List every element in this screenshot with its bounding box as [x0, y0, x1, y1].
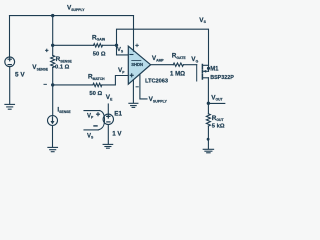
svg-text:E1: E1 — [114, 110, 122, 117]
node marker below ROUT — [207, 138, 210, 141]
E1 control minus sign — [94, 125, 97, 127]
svg-text:RMATCH: RMATCH — [88, 74, 105, 81]
svg-text:+: + — [45, 48, 49, 55]
E1 control capsule right cap — [98, 111, 104, 130]
opamp noninverting input plus sign — [130, 74, 133, 77]
ground under opamp — [129, 103, 138, 107]
opamp SHDN pin wire to VSUPPLY — [140, 74, 147, 99]
wire M1 drain down to VOUT node — [207, 78, 209, 114]
svg-text:VP: VP — [87, 113, 94, 119]
svg-text:VS: VS — [117, 47, 124, 53]
wire RGAIN from RSENSE top tap to VS node — [53, 44, 94, 46]
wire VOUT stub to the right — [208, 102, 224, 104]
svg-text:VP: VP — [118, 67, 125, 74]
resistor RGAIN 50 ohm — [94, 44, 103, 47]
wire VS node up and over to M1 source — [117, 29, 209, 65]
wire RMATCH from sense bottom node — [53, 84, 93, 86]
opamp V- wire to ground — [132, 80, 134, 103]
wire M1 source bus — [208, 65, 210, 71]
svg-text:ISENSE: ISENSE — [57, 107, 71, 114]
vcvs E1 1V output circle — [103, 104, 113, 144]
opamp inverting input minus sign — [130, 54, 133, 56]
svg-text:VSUPPLY: VSUPPLY — [149, 96, 168, 103]
svg-text:VOUT: VOUT — [211, 94, 223, 101]
voltage source V1 5V — [5, 57, 15, 67]
label SHDN with overline — [131, 61, 143, 67]
svg-text:–: – — [136, 84, 140, 90]
wire ISENSE to ground — [52, 126, 54, 148]
wire battery to ground — [9, 67, 11, 104]
ground under ROUT — [203, 149, 213, 153]
svg-text:RGAIN: RGAIN — [92, 34, 106, 41]
op-amp U1 LTC2063 triangle — [128, 46, 150, 84]
ground under E1 — [103, 144, 113, 148]
junction node on rail at RSENSE — [51, 14, 54, 17]
E1 control capsule top lead VP — [84, 110, 100, 112]
resistor ROUT 5k — [206, 114, 210, 126]
junction node VS — [115, 44, 118, 47]
resistor RGATE 1 Mohm — [173, 63, 183, 66]
svg-text:M1: M1 — [210, 67, 219, 73]
svg-text:VSUPPLY: VSUPPLY — [67, 4, 85, 11]
wire RMATCH to opamp noninverting input — [102, 76, 128, 85]
svg-text:SHDN: SHDN — [131, 62, 143, 67]
svg-text:RSENSE: RSENSE — [56, 56, 73, 63]
svg-text:1 V: 1 V — [112, 131, 122, 138]
svg-text:+: + — [135, 42, 139, 49]
wire RSENSE bottom to node — [52, 68, 54, 116]
current source ISENSE — [48, 116, 58, 126]
svg-text:RGATE: RGATE — [172, 53, 187, 60]
svg-text:LTC2063: LTC2063 — [145, 79, 168, 85]
wire VS node down to opamp inverting input — [117, 45, 129, 55]
svg-text:VAMP: VAMP — [152, 55, 165, 62]
junction node sense bottom — [51, 83, 54, 86]
svg-text:VS: VS — [87, 133, 94, 139]
svg-text:ROUT: ROUT — [212, 115, 225, 122]
E1 control capsule bottom lead VSbar — [84, 129, 98, 131]
svg-text:0.1 Ω: 0.1 Ω — [55, 65, 70, 71]
junction node RGAIN tap — [51, 44, 54, 47]
resistor RMATCH 50 ohm — [93, 83, 102, 86]
wire opamp output — [151, 64, 174, 66]
svg-text:VG: VG — [191, 56, 198, 63]
junction node M1 source body — [207, 67, 210, 70]
ground under battery — [5, 104, 15, 109]
svg-text:1 MΩ: 1 MΩ — [170, 71, 185, 78]
svg-text:VS: VS — [199, 17, 206, 24]
ground under ISENSE — [48, 147, 58, 151]
svg-text:–: – — [43, 81, 47, 88]
wire RGAIN to VS node — [103, 44, 117, 46]
resistor RSENSE 0.1 ohm — [51, 55, 55, 67]
junction node VOUT — [207, 102, 210, 105]
wire left drop to battery — [9, 16, 11, 57]
svg-text:5 V: 5 V — [15, 72, 25, 79]
wire RGATE to M1 gate — [183, 64, 196, 66]
wire rail to RSENSE top — [52, 16, 54, 56]
opamp V+ supply wire from rail — [133, 16, 135, 52]
transistor M1 BSP322P pmos — [197, 65, 209, 82]
svg-text:50 Ω: 50 Ω — [93, 52, 106, 58]
wire top supply rail — [10, 15, 134, 17]
svg-text:VE: VE — [106, 94, 113, 101]
svg-text:VSENSE: VSENSE — [32, 64, 48, 71]
svg-text:5 kΩ: 5 kΩ — [212, 124, 225, 130]
E1 control plus sign — [97, 113, 100, 116]
svg-text:50 Ω: 50 Ω — [89, 91, 102, 97]
svg-text:BSP322P: BSP322P — [210, 75, 234, 81]
wire ROUT to ground — [207, 126, 209, 149]
